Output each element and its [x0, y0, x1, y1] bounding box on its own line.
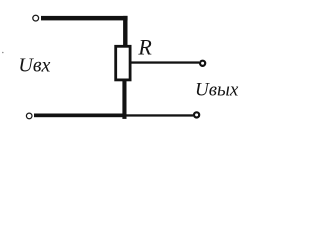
wire: top horizontal from input terminal to node [41, 16, 128, 21]
bottom-left terminal [26, 113, 32, 119]
bottom-right terminal [194, 112, 199, 117]
svg-text:Uвых: Uвых [195, 79, 239, 100]
input terminal top-left [33, 15, 39, 21]
wire: vertical lead from top wire down to resistor R [123, 16, 127, 47]
resistor R [116, 46, 130, 80]
output terminal top-right [200, 61, 205, 66]
svg-text:Uвх: Uвх [18, 54, 50, 76]
wire: bottom horizontal thin from junction to right terminal [126, 114, 193, 116]
wire: bottom horizontal thick from left terminal to junction [34, 114, 126, 118]
stray speck (artifact in source) [2, 52, 4, 54]
wire: vertical lead from resistor R down to bottom wire [122, 80, 126, 119]
svg-text:R: R [137, 34, 152, 59]
wire: thin tap wire from resistor to output terminal [132, 61, 200, 63]
